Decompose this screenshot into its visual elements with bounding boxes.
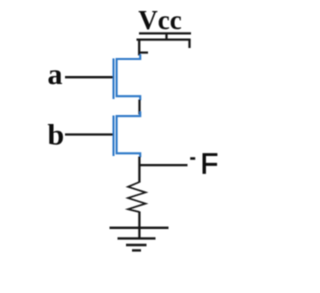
svg-text:a: a	[48, 58, 63, 91]
svg-text:F: F	[201, 149, 219, 181]
overbar mark of output F	[190, 157, 195, 160]
Vcc symbol stem	[165, 33, 167, 40]
wire: output node to F	[139, 164, 187, 166]
Vcc power rail bar (upper)	[139, 32, 191, 34]
wire: Q1 source to Q2 drain	[138, 100, 140, 115]
ground bar 4	[132, 249, 141, 251]
ground bar 1	[110, 227, 169, 229]
transistor Q2 (input b) body	[117, 111, 141, 157]
wire: Q2 source down to resistor	[138, 157, 140, 183]
wire: input a to Q1 gate	[65, 76, 113, 78]
wire: right stub down from lower rail	[188, 40, 190, 48]
resistor R1	[128, 182, 146, 212]
transistor Q2 gate plate	[112, 116, 114, 157]
wire: input b to Q2 gate	[65, 133, 113, 135]
wire: resistor to ground	[138, 212, 140, 240]
svg-text:Vcc: Vcc	[138, 5, 181, 35]
ground bar 2	[118, 237, 156, 239]
Vcc power rail bar (lower)	[137, 38, 191, 40]
transistor Q1 (input a) body	[117, 54, 141, 100]
svg-text:b: b	[48, 118, 65, 151]
ground bar 3	[126, 244, 147, 246]
transistor Q1 gate plate	[112, 58, 114, 99]
pin tick on Q1 drain wire	[140, 51, 148, 53]
wire: Vcc rail down to Q1 drain	[138, 40, 140, 56]
